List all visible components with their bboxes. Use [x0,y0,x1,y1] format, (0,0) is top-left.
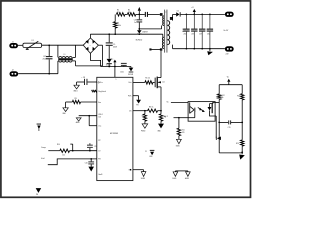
node out2 [193,14,195,16]
capacitor C10 [90,158,92,160]
svg-text:GND1: GND1 [73,90,77,92]
node UVLO [88,115,90,117]
resistor R7 [144,111,146,114]
capacitor C9 [89,150,91,152]
node X-cap top [48,45,50,47]
flag FOK (down arrow) [133,95,139,97]
svg-text:Gnd1: Gnd1 [98,174,102,176]
wire bridge- to DC return [90,53,100,66]
node out4 [209,14,211,16]
svg-text:+ C8: + C8 [81,77,85,79]
ferrite bead FB1 [145,12,146,17]
svg-text:Vo: Vo [167,102,169,104]
power flag Vcc (up arrow) [114,62,116,67]
wire fuse to bridge (AC top) [42,44,84,46]
svg-text:R11: R11 [182,130,185,132]
wire clamp to primary bottom [139,28,161,30]
ground flag PE (bottom left) [36,188,42,193]
capacitor C6 [121,62,127,65]
fuse/varistor F1 [23,43,42,47]
node R10 stub [72,150,74,152]
diode D2 (output rectifier) [176,12,179,16]
svg-text:DGND: DGND [172,178,176,180]
wire ref bottom [219,152,242,154]
node D5-return [108,66,110,68]
svg-text:Vcc: Vcc [111,58,114,60]
svg-text:R13: R13 [237,95,240,97]
ground right (open triangle) [187,170,189,173]
resistor R11 [178,118,180,129]
power flag Vo sense [228,82,230,85]
svg-text:R14: R14 [236,143,239,145]
svg-text:Reg/Latch: Reg/Latch [98,90,106,93]
diode D6 [130,67,132,68]
capacitor C8 (Vcc bypass) [87,81,96,83]
wire ref link [219,121,228,123]
connector J1 (AC line input) [9,43,18,48]
capacitor C13 (output filter) [201,14,203,28]
ground R9 (open triangle) [65,102,67,108]
ground flag TL (slanted arrow) [241,153,243,154]
wire DC return bus [101,66,131,68]
svg-text:RT: RT [98,140,100,142]
transformer T1 aux winding [162,34,164,37]
node CS left [144,110,146,112]
svg-text:Vctrl: Vctrl [41,157,45,160]
test point TP1 [37,123,41,126]
node ref bottom [241,151,243,153]
svg-text:1N4148: 1N4148 [128,74,133,76]
ground UVLO stub (open triangle) [76,118,81,121]
capacitor C15 (comp) [227,120,230,124]
svg-text:Vo: Vo [227,77,229,79]
wire drain (aux to MOSFET) [160,51,162,78]
svg-text:680k: 680k [117,25,121,27]
svg-text:GND: GND [149,156,152,158]
node outb4 [209,48,211,50]
transistor Q1 (MOSFET) [154,78,157,88]
capacitor C12 (output filter) [193,14,195,28]
wire source down [160,87,162,111]
connector J3 (output +) [225,12,234,17]
wire FB net [48,159,97,165]
capacitor C5 (bulk 400V) [108,34,110,42]
svg-text:C9: C9 [94,146,96,148]
svg-text:Vo 5V: Vo 5V [223,30,229,32]
connector J2 (AC neutral input) [10,71,19,76]
resistor R2 (snubber) [127,13,135,16]
resistor R4 (vertical, snubber bleed) [114,14,116,21]
svg-text:C1: C1 [145,151,147,153]
inductor L1 (common-mode choke) [57,45,59,57]
wire CT net [48,150,60,152]
svg-text:100n: 100n [120,72,124,74]
wire R2 to node [136,13,145,15]
svg-text:R5 10: R5 10 [145,77,150,79]
svg-text:R6 1k: R6 1k [149,107,154,109]
resistor R14 (divider lower) [241,122,243,139]
svg-text:C15: C15 [228,127,231,129]
svg-text:Q1: Q1 [162,81,164,83]
svg-text:SGND: SGND [176,146,180,148]
diode D3 [215,137,218,140]
node snubber junction [138,14,140,16]
svg-text:D2: D2 [177,10,179,12]
svg-text:MUR160: MUR160 [136,39,142,41]
svg-text:1N4937: 1N4937 [142,32,148,34]
ground left (open triangle) [174,170,176,173]
svg-text:10k: 10k [62,155,65,157]
resistor stub pin Reg [92,90,97,92]
wire output rail [181,13,225,15]
node clamp junction [138,28,140,30]
capacitor C3 (snubber) [138,14,140,19]
wire J2 to choke (AC bottom) [18,73,58,75]
wire HV rail [90,33,162,35]
svg-text:CT: CT [98,151,100,153]
resistor R12 (pull-up) [218,99,220,102]
ground Out pin (open triangle) [133,169,144,171]
flag C-drv (cap+arrow) [150,149,155,152]
node source-R8 [160,110,162,112]
svg-text:470: 470 [182,132,185,134]
resistor R5 (gate) [133,81,145,83]
diode D5 [107,59,112,63]
svg-text:L1: L1 [64,54,66,56]
wire UVLO loop [79,115,97,117]
transformer T1 core [163,10,166,53]
wire opto emitter down [215,116,217,138]
capacitor C14 (output filter) [209,14,211,28]
svg-text:C10: C10 [85,162,88,164]
wire junction to IC top pin [114,67,116,78]
svg-text:R9: R9 [75,98,77,100]
svg-text:J1: J1 [12,42,14,44]
svg-text:C2: C2 [182,29,184,31]
node out1 [186,14,188,16]
power flag +V [193,12,195,14]
node rail-D1 [138,33,140,35]
svg-text:R7: R7 [142,116,144,118]
wire collector down [218,102,220,122]
node cathode-R11 [178,117,180,119]
bridge rectifier BR1 [83,38,98,53]
wire opto collector to pullup [215,101,219,103]
svg-text:1n: 1n [134,22,136,24]
ground flag secondary (slanted arrow) [209,49,211,51]
capacitor C11 (output filter) [185,14,187,28]
svg-text:PE: PE [36,194,38,196]
resistor R9 [81,101,97,103]
wire R1-R2 [125,13,128,15]
connector J4 (output return) [225,46,234,51]
svg-text:+: + [90,45,91,47]
svg-text:MC33369: MC33369 [110,133,118,135]
wire choke to bridge-right (lower AC) [73,60,76,62]
wire Vo rail (feedback) [219,84,242,86]
op-amp U1 (controller MC33369) [97,77,133,180]
svg-text:47k: 47k [128,12,131,14]
node rail-R4 [114,33,116,35]
svg-text:47k: 47k [117,12,120,14]
node rail-bulkcap [108,33,110,35]
optocoupler U2 [188,102,215,122]
svg-text:F1: F1 [32,40,34,42]
svg-text:R10: R10 [57,144,60,146]
ground C8 (open triangle) [76,82,78,85]
svg-text:R12: R12 [222,95,225,97]
svg-text:Vstr: Vstr [128,81,131,84]
wire choke to bridge-left (up) [75,45,77,57]
resistor R6 [148,109,158,112]
ground R8 (arrow) [158,124,164,129]
wire bead to primary [148,13,160,15]
node outb2 [193,48,195,50]
svg-text:FB: FB [136,105,138,107]
node fb-right [241,122,243,124]
diode D1 (clamp) [138,29,140,30]
wire CS pin to source node [133,110,148,112]
node fb-left [218,122,220,124]
transformer T1 secondary winding [167,21,169,45]
wire bridge+ to HV rail [89,34,91,38]
capacitor CX1 (X2 line cap) [48,45,50,56]
node outb1 [186,48,188,50]
wire opto cathode [174,117,189,119]
ground R7 (open triangle) [142,124,148,128]
resistor R13 (divider upper) [241,85,243,94]
power flag HV (up arrow) [138,11,140,15]
resistor R8 [160,111,162,114]
node Vcc pin junction [114,66,116,68]
svg-text:Osc: Osc [98,126,101,128]
ground R11 (open triangle) [177,139,182,144]
wire fb-left down [218,122,220,152]
resistor R10 [60,149,70,152]
wire secondary top [173,13,177,15]
node X-cap bottom [48,73,50,75]
svg-text:Vcc: Vcc [100,82,103,84]
resistor R1 (snubber) [116,13,125,16]
wire J1 to fuse [18,44,23,46]
svg-text:T1: T1 [165,12,167,14]
node outb3 [201,48,203,50]
wire secondary bottom [172,45,174,49]
transformer T1 primary winding [160,13,163,16]
svg-text:J2: J2 [12,70,14,72]
node out3 [201,14,203,16]
wire dual ground bar [175,170,188,172]
svg-text:1k: 1k [222,97,224,99]
svg-text:Comp: Comp [41,147,46,149]
ground C10 (arrow) [90,164,92,166]
wire opto anode [171,101,188,103]
